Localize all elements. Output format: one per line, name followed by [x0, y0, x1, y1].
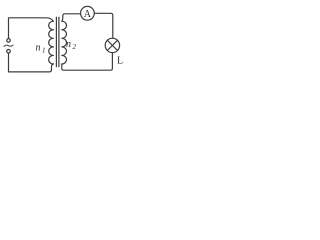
lamp L cross line 2	[107, 40, 117, 50]
AC source tilde	[4, 45, 13, 46]
svg-text:n: n	[66, 39, 71, 50]
svg-text:L: L	[117, 56, 123, 67]
ammeter A1 circle	[81, 6, 95, 20]
AC source terminal circle top	[7, 39, 11, 43]
svg-text:2: 2	[73, 43, 77, 51]
svg-text:1: 1	[42, 47, 46, 55]
transformer core line left	[55, 17, 57, 66]
secondary coil n2	[62, 21, 67, 64]
svg-text:A: A	[84, 9, 92, 20]
wire secondary-top to ammeter	[62, 14, 81, 21]
AC source terminal circle bottom	[7, 50, 11, 54]
wire ammeter to lamp (top right corner)	[94, 13, 113, 38]
lamp L cross line 1	[107, 40, 117, 50]
transformer core line right	[58, 17, 60, 66]
wire lamp bottom to secondary bottom	[62, 53, 113, 71]
wire left-top (from AC source up and across to primary coil)	[9, 18, 54, 39]
svg-text:n: n	[36, 43, 41, 54]
primary coil n1	[49, 21, 54, 64]
wire left-bottom (from AC source down and across to primary coil bottom)	[9, 53, 54, 72]
lamp L circle	[105, 38, 119, 52]
